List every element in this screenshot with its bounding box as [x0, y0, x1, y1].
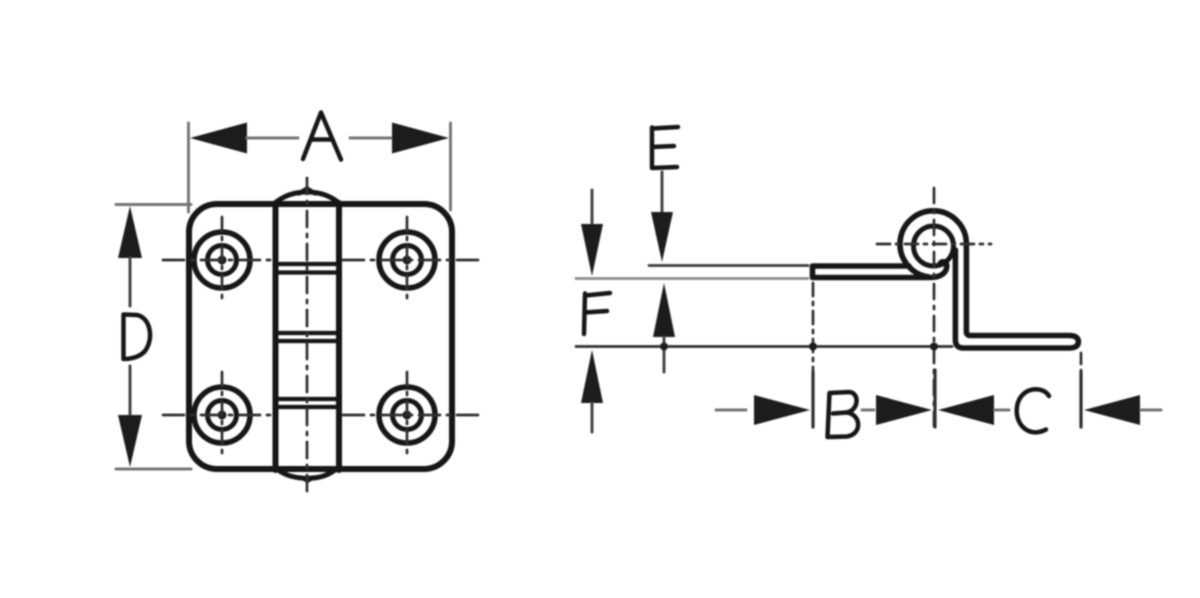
- label D: [124, 315, 151, 360]
- barrel pin centerline horizontal: [877, 243, 991, 246]
- dimension F arrow up: [581, 350, 603, 403]
- hole centerline vertical bottom-left: [221, 372, 224, 458]
- curl outer arc and right leaf profile: [900, 211, 1078, 348]
- knuckle joint line pair 3 lower: [277, 405, 337, 409]
- dimension B left outer dash: [716, 409, 746, 412]
- hole centerline vertical bottom-right: [406, 372, 409, 458]
- hole centerline horizontal top row: [163, 259, 271, 262]
- dimension B mid dash: [862, 409, 874, 412]
- dimension A arrow left: [190, 123, 247, 154]
- hole centerline vertical top-left: [221, 217, 224, 303]
- knuckle joint line pair 3 upper: [277, 397, 337, 401]
- screw hole top-left center dot: [218, 256, 227, 265]
- barrel pin centerline vertical: [933, 188, 936, 426]
- dimension C right outer dash: [1141, 409, 1161, 412]
- top leaf bottom extension line: [576, 277, 808, 280]
- dimension B arrow left (points right): [754, 395, 810, 425]
- screw hole bottom-right outer circle: [379, 387, 435, 443]
- hinge plate outline: [189, 204, 452, 469]
- extension line at right end of lower leaf (solid): [1079, 372, 1082, 427]
- label C: [1017, 389, 1049, 432]
- dimension D arrow up: [118, 206, 142, 258]
- hinge barrel right line: [336, 203, 342, 470]
- screw hole top-left inner circle: [208, 246, 237, 275]
- screw hole bottom-left inner circle: [208, 401, 237, 430]
- screw hole top-right outer circle: [379, 232, 435, 288]
- dimension A arrow right: [392, 123, 449, 154]
- pin cap dome top point: [299, 189, 315, 194]
- pin cap dome top: [275, 192, 339, 203]
- dimension D bottom extension line: [116, 468, 191, 471]
- extension line at left end of top leaf (solid): [811, 372, 814, 427]
- pin cap dome bottom point: [301, 477, 314, 481]
- dimension C arrow left (points left): [938, 395, 994, 425]
- screw hole bottom-right center dot: [403, 411, 412, 420]
- hole centerline horizontal bottom row: [163, 414, 271, 417]
- pin cap dome bottom: [278, 470, 335, 478]
- knuckle joint line pair 2 lower: [277, 339, 337, 343]
- dimension D arrow down: [118, 415, 142, 467]
- dimension A left shaft: [247, 137, 298, 140]
- extension line at right end of lower leaf (dashed): [1080, 353, 1083, 372]
- junction dot at arrow shaft crossing: [660, 343, 668, 351]
- dimension D upper shaft: [129, 258, 132, 306]
- dimension D top extension line: [116, 203, 191, 206]
- dimension C mid dash: [995, 409, 1009, 412]
- knuckle joint line pair 1 upper: [277, 262, 337, 266]
- top leaf profile: [813, 262, 947, 278]
- dimension F lower shaft: [591, 403, 594, 432]
- screw hole bottom-left center dot: [218, 411, 227, 420]
- label E: [652, 127, 678, 168]
- dimension E/F up arrow: [653, 283, 675, 337]
- dimension B arrow right (points right): [876, 395, 932, 425]
- screw hole top-right inner circle: [393, 246, 422, 275]
- dimension C arrow right (points left): [1084, 395, 1140, 425]
- knuckle joint line pair 2 upper: [277, 331, 337, 335]
- dimension A left extension line: [187, 123, 190, 212]
- label B: [828, 392, 859, 437]
- screw hole top-left outer circle: [194, 232, 250, 288]
- dimension E shaft: [661, 172, 664, 216]
- label A: [303, 113, 341, 160]
- curl inner circle: [914, 226, 954, 266]
- screw hole top-right center dot: [403, 256, 412, 265]
- dimension E arrow down: [651, 212, 673, 262]
- dimension F upper shaft: [591, 190, 594, 226]
- screw hole bottom-left outer circle: [194, 387, 250, 443]
- screw hole bottom-right inner circle: [393, 401, 422, 430]
- dimension F arrow down: [581, 224, 603, 276]
- hinge barrel left line: [273, 203, 279, 470]
- knuckle joint line pair 1 lower: [277, 270, 337, 274]
- dimension A right shaft: [350, 137, 392, 140]
- top leaf top extension line: [649, 264, 808, 267]
- label F: [584, 293, 610, 334]
- hole centerline vertical top-right: [406, 217, 409, 303]
- junction dot at F extension crossing: [809, 343, 817, 351]
- dimension D lower shaft: [129, 366, 132, 414]
- extension line below pin center: [933, 370, 936, 427]
- extension line at left end of top leaf (dashed): [812, 283, 815, 372]
- junction dot at pin centerline crossing: [930, 343, 938, 351]
- dimension A right extension line: [449, 123, 452, 210]
- lower leaf extension line (dash-dot): [576, 345, 952, 348]
- dimension E/F up arrow shaft: [663, 337, 666, 372]
- barrel centerline (dashed): [306, 178, 309, 491]
